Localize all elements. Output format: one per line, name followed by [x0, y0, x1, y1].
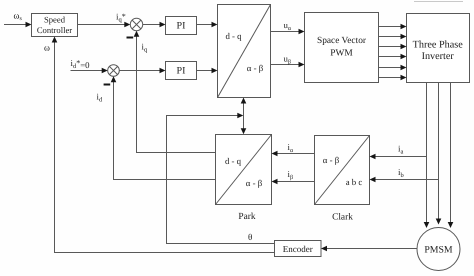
svg-text:PMSM: PMSM	[424, 245, 453, 256]
svg-text:Clark: Clark	[332, 213, 353, 223]
svg-text:ω: ω	[44, 43, 50, 53]
svg-text:PI: PI	[177, 20, 186, 31]
svg-text:a b c: a b c	[346, 177, 363, 187]
svg-text:d - q: d - q	[225, 156, 242, 166]
svg-text:Three Phase: Three Phase	[413, 40, 464, 51]
svg-text:PWM: PWM	[330, 49, 353, 59]
svg-text:Encoder: Encoder	[283, 244, 313, 254]
svg-text:d - q: d - q	[225, 31, 242, 41]
svg-text:α - β: α - β	[246, 178, 263, 188]
svg-text:Park: Park	[238, 212, 255, 222]
svg-text:θ: θ	[248, 232, 252, 242]
svg-text:Space Vector: Space Vector	[317, 36, 367, 46]
svg-text:α - β: α - β	[323, 155, 340, 165]
svg-text:Inverter: Inverter	[422, 51, 455, 62]
svg-text:α - β: α - β	[247, 63, 264, 73]
svg-text:PI: PI	[177, 65, 186, 76]
svg-text:Speed: Speed	[44, 15, 66, 25]
svg-text:Controller: Controller	[37, 25, 72, 35]
